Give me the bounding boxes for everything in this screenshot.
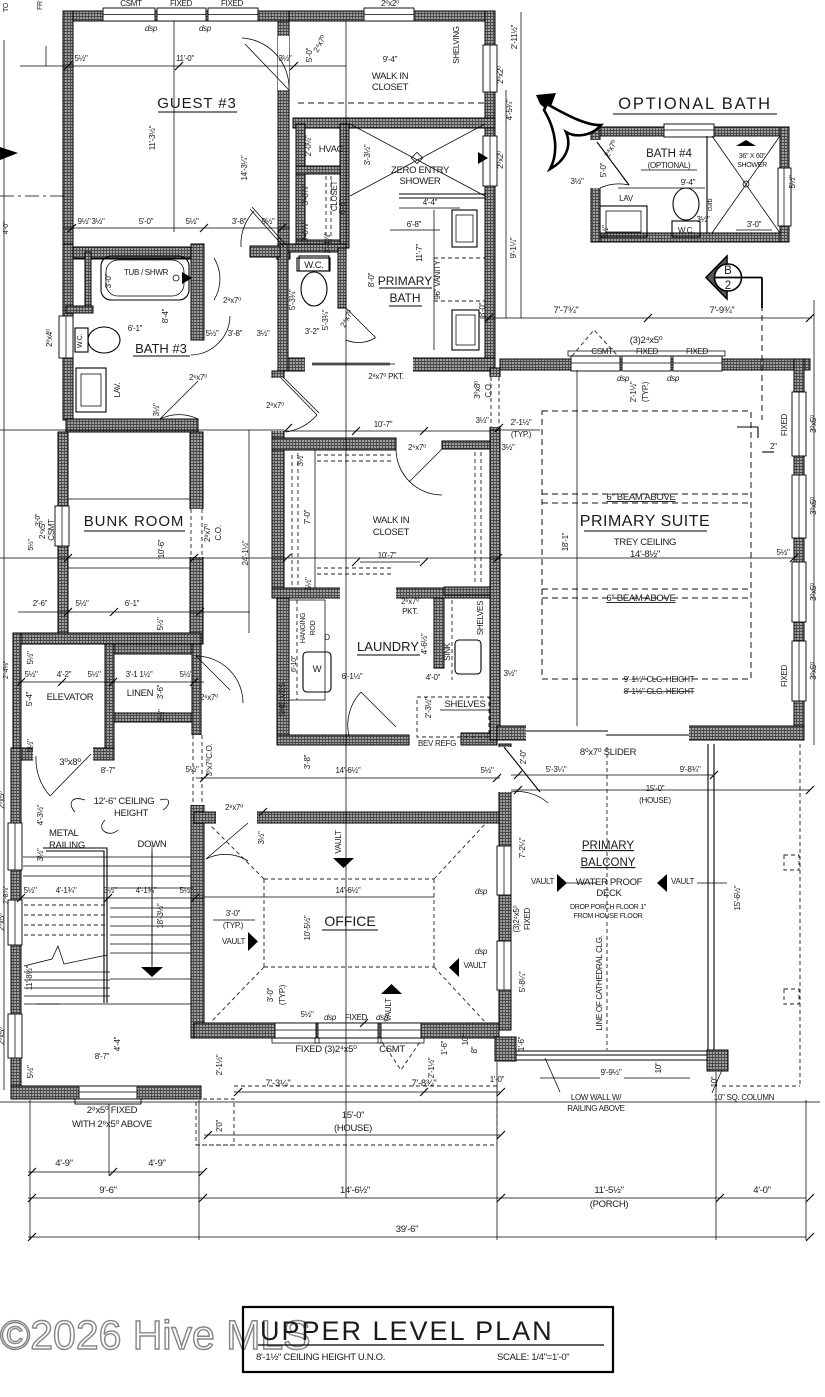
svg-text:5½": 5½"	[24, 670, 38, 679]
marker: B2 circle	[706, 256, 727, 299]
dim line y1172	[28, 1171, 204, 1173]
svg-text:CLOSET: CLOSET	[373, 527, 410, 538]
WALLS	[8, 8, 810, 1104]
stair railing	[43, 848, 107, 1003]
svg-text:5½": 5½"	[304, 577, 313, 591]
wall: primary suite right exterior	[794, 359, 804, 732]
svg-text:9½": 9½"	[261, 217, 275, 226]
wall: elevator bottom	[13, 748, 114, 760]
svg-text:2'-6": 2'-6"	[33, 599, 48, 608]
svg-text:8": 8"	[470, 1046, 479, 1053]
svg-text:4'-9": 4'-9"	[148, 1158, 165, 1169]
svg-text:SHELVING: SHELVING	[452, 26, 461, 64]
wall: stub right of WIC2 door	[442, 441, 498, 449]
trey ceiling dashed rect primary suite	[542, 411, 751, 679]
svg-text:5'-3¾": 5'-3¾"	[288, 289, 297, 310]
svg-text:3'-8⅞": 3'-8⅞"	[301, 221, 310, 242]
svg-text:(OPTIONAL): (OPTIONAL)	[648, 161, 691, 170]
svg-text:3½": 3½"	[296, 453, 305, 467]
svg-text:ROD: ROD	[310, 620, 317, 635]
svg-text:3'-3½": 3'-3½"	[363, 144, 372, 165]
svg-text:5½": 5½"	[74, 54, 88, 63]
svg-text:2⁰x5⁰: 2⁰x5⁰	[0, 791, 6, 809]
title block outer box	[243, 1307, 613, 1372]
svg-text:3½": 3½"	[501, 443, 515, 452]
extension vline x346 long	[345, 21, 347, 1198]
WIC top shelf dashed	[298, 102, 486, 104]
svg-text:HEIGHT: HEIGHT	[114, 808, 149, 819]
fixture: shower primary X	[350, 124, 485, 196]
property dash-dot top left	[0, 195, 66, 197]
svg-text:FIXED: FIXED	[636, 347, 659, 356]
door: laundry 2-8x7	[361, 692, 396, 727]
svg-text:PRIMARY SUITE: PRIMARY SUITE	[580, 513, 710, 530]
svg-text:BATH #4: BATH #4	[646, 148, 692, 160]
svg-text:2'-4⅛": 2'-4⅛"	[3, 660, 10, 679]
stair treads upper full-width	[23, 856, 191, 858]
dim line optional bath row y318	[480, 317, 812, 319]
wall piece left of office door	[194, 812, 216, 823]
svg-text:3½": 3½"	[91, 217, 105, 226]
stair treads right run	[110, 887, 191, 889]
door: elevator 3x8	[50, 754, 91, 796]
svg-text:2⁸x7⁰ PKT.: 2⁸x7⁰ PKT.	[368, 372, 404, 381]
svg-text:2'-3½": 2'-3½"	[424, 697, 433, 718]
svg-text:39'-6": 39'-6"	[396, 1224, 418, 1235]
svg-text:8'-7": 8'-7"	[101, 766, 116, 775]
WATERMARK	[0, 1312, 311, 1358]
dim line y898 stairs row	[21, 897, 204, 899]
svg-text:8'-7": 8'-7"	[95, 1052, 110, 1061]
stair treads lower	[24, 971, 110, 973]
wall: shelf nook stub	[444, 587, 497, 595]
svg-text:10'-5½": 10'-5½"	[303, 915, 312, 940]
SECTION MARKER B2	[706, 256, 762, 308]
fixture: bath4 shower X	[712, 136, 780, 233]
wall: office bottom	[194, 1023, 499, 1038]
opening: suite C.O. 3x8 dashed	[489, 377, 501, 427]
svg-text:2'-1½": 2'-1½"	[511, 418, 532, 427]
svg-text:PRIMARY: PRIMARY	[378, 274, 432, 288]
svg-text:3'-1 1½": 3'-1 1½"	[126, 670, 153, 679]
svg-text:2⁰x2⁰: 2⁰x2⁰	[496, 151, 505, 169]
svg-text:5½": 5½"	[75, 599, 89, 608]
window office bottom CSMT	[381, 1023, 421, 1038]
svg-text:2⁴x7⁰: 2⁴x7⁰	[312, 34, 328, 54]
wall: bunk bottom	[13, 633, 201, 644]
door: balcony door leaf	[504, 747, 540, 792]
extension vline x174 guest	[173, 21, 175, 232]
svg-text:3½": 3½"	[601, 225, 610, 239]
svg-text:2'-0": 2'-0"	[519, 749, 528, 764]
window balcony wall 1	[497, 846, 511, 895]
wall: guest#3 left exterior	[63, 11, 73, 247]
svg-text:2⁴x7⁰: 2⁴x7⁰	[603, 139, 619, 159]
svg-text:3½": 3½"	[278, 54, 292, 63]
svg-text:5½": 5½"	[480, 766, 494, 775]
svg-text:3½": 3½"	[103, 886, 117, 895]
svg-text:5½": 5½"	[87, 670, 101, 679]
svg-text:2⁰x5⁰: 2⁰x5⁰	[0, 1027, 6, 1045]
porch dashed lower	[196, 1144, 497, 1146]
closet dashed shelves	[325, 176, 327, 246]
svg-text:LOW WALL W/: LOW WALL W/	[571, 1093, 622, 1102]
svg-text:3⁰x5⁰: 3⁰x5⁰	[809, 415, 818, 433]
svg-text:WALK IN: WALK IN	[372, 71, 409, 82]
svg-text:FIXED: FIXED	[221, 0, 244, 8]
balcony center dashed	[606, 747, 608, 1050]
svg-text:5½": 5½"	[156, 617, 165, 631]
svg-text:FROM HOUSE FLOOR: FROM HOUSE FLOOR	[574, 913, 643, 920]
extension vline left margin	[3, 40, 5, 1090]
svg-text:2⁴x7⁰: 2⁴x7⁰	[339, 309, 355, 329]
svg-text:1'-6": 1'-6"	[440, 1040, 449, 1055]
svg-text:(PORCH): (PORCH)	[590, 1199, 629, 1210]
svg-text:3½": 3½"	[257, 831, 266, 845]
stair landing line	[24, 1003, 191, 1005]
stair break line	[24, 946, 107, 966]
fixture: bath4 lav counter	[600, 206, 647, 237]
svg-text:FIXED: FIXED	[780, 413, 789, 436]
leader arrow to optional bath	[536, 93, 556, 112]
svg-text:3'-2": 3'-2"	[305, 327, 320, 336]
svg-text:10" SQ. COLUMN: 10" SQ. COLUMN	[714, 1093, 775, 1102]
window balcony wall 2	[497, 941, 511, 990]
dim line y428	[0, 429, 284, 431]
svg-text:3'-8⅞": 3'-8⅞"	[301, 184, 310, 205]
office vault dashed octagon	[210, 823, 486, 1023]
svg-text:3½": 3½"	[696, 215, 710, 224]
svg-text:2⁶x7⁰: 2⁶x7⁰	[401, 597, 419, 606]
svg-text:(TYP.): (TYP.)	[511, 430, 532, 439]
svg-text:4'-0": 4'-0"	[753, 1185, 770, 1196]
svg-text:CSMT: CSMT	[591, 347, 613, 356]
window suite right 1	[792, 392, 806, 456]
opening: bunk cased opening	[189, 509, 204, 557]
svg-text:UPPER LEVEL PLAN: UPPER LEVEL PLAN	[260, 1316, 554, 1346]
svg-text:4'-1¾": 4'-1¾"	[136, 886, 157, 895]
dim line y1090	[234, 1091, 500, 1093]
door: bunk room door arc top	[191, 316, 230, 355]
svg-text:3⁰x5⁰: 3⁰x5⁰	[809, 583, 818, 601]
svg-text:LINEN: LINEN	[127, 688, 154, 699]
svg-text:2: 2	[725, 280, 731, 292]
opening: hall door in WIC2 left wall	[271, 378, 285, 431]
svg-text:8'-0": 8'-0"	[478, 302, 487, 317]
svg-text:2⁶x7⁰: 2⁶x7⁰	[189, 373, 207, 382]
wall: WIC2 top	[272, 438, 396, 450]
svg-text:BATH: BATH	[389, 291, 420, 305]
extension vline x506	[505, 90, 507, 318]
wall: WIC2 bottom	[272, 588, 497, 598]
svg-text:8⁰x7⁰ SLIDER: 8⁰x7⁰ SLIDER	[580, 747, 637, 758]
svg-text:HANGING: HANGING	[300, 613, 307, 644]
door: guest bottom arc	[252, 207, 286, 245]
STAIRS	[23, 848, 191, 1004]
svg-text:14'-6½": 14'-6½"	[340, 1185, 370, 1196]
svg-text:FIXED: FIXED	[780, 664, 789, 687]
window suite top FIXED2	[673, 356, 722, 371]
svg-text:BATH #3: BATH #3	[135, 341, 187, 356]
svg-text:BUNK ROOM: BUNK ROOM	[84, 513, 185, 530]
column: balcony SW	[495, 1037, 516, 1061]
svg-text:14'-3¼": 14'-3¼"	[240, 155, 249, 180]
opening: door guest to WIC	[278, 36, 289, 90]
svg-text:RAILING ABOVE: RAILING ABOVE	[567, 1104, 624, 1113]
svg-text:2⁶x7⁰: 2⁶x7⁰	[200, 693, 218, 702]
extension vline x814 right	[813, 300, 815, 745]
stair down arrow line	[151, 852, 153, 967]
window CSMT guest top	[103, 8, 155, 21]
window 2x5 stairs left 2	[8, 900, 22, 945]
svg-text:FR: FR	[37, 1, 44, 10]
svg-text:9'-8¾": 9'-8¾"	[680, 765, 701, 774]
svg-text:2⁸x7⁰: 2⁸x7⁰	[203, 524, 212, 542]
svg-text:2'-1½": 2'-1½"	[629, 381, 638, 402]
opening: bath4 door	[590, 140, 601, 188]
wall: left exterior bath#3	[63, 244, 73, 420]
wall: linen top	[114, 644, 192, 654]
wall: tub room top	[71, 247, 199, 258]
dim line y1237	[28, 1236, 806, 1238]
opening: slider 8x7	[526, 725, 689, 741]
svg-text:3⁰x5⁰: 3⁰x5⁰	[809, 497, 818, 515]
svg-text:1'-0": 1'-0"	[490, 1075, 505, 1084]
dim line corridor y221	[63, 227, 290, 229]
svg-text:LAV: LAV	[619, 194, 634, 203]
fixture: toilet primary WC	[299, 256, 329, 271]
door: hall door 2-8x7	[281, 378, 317, 415]
wall: linen bottom	[114, 713, 192, 722]
long line y1102	[0, 1101, 820, 1103]
wall: WC/bath divider	[338, 248, 346, 308]
wall: tub chase inner	[85, 252, 91, 308]
svg-text:B: B	[724, 265, 732, 277]
office window sill bands	[272, 1038, 319, 1043]
dim line y778 office top row	[196, 777, 500, 779]
svg-text:CSMT: CSMT	[379, 1044, 405, 1055]
porch pilaster dashed 1	[784, 855, 799, 870]
svg-text:dsp: dsp	[324, 1013, 337, 1022]
fixture: washer laundry	[303, 652, 331, 692]
svg-text:WATER PROOF: WATER PROOF	[576, 877, 643, 888]
svg-text:9'-4": 9'-4"	[681, 178, 696, 187]
svg-text:3⁰x5⁰: 3⁰x5⁰	[809, 662, 818, 680]
svg-text:CSMT: CSMT	[120, 0, 142, 8]
wall: top-mid block right exterior	[485, 11, 495, 371]
svg-text:3'-8": 3'-8"	[303, 754, 312, 769]
svg-text:5½": 5½"	[26, 739, 35, 753]
svg-text:W.C.: W.C.	[678, 226, 694, 235]
svg-text:BALCONY: BALCONY	[581, 857, 636, 869]
svg-text:11'-8½": 11'-8½"	[25, 965, 34, 990]
svg-text:18'-1": 18'-1"	[561, 532, 570, 551]
svg-text:7'-7¾": 7'-7¾"	[553, 305, 578, 316]
svg-text:SCALE: 1/4"=1'-0": SCALE: 1/4"=1'-0"	[497, 1352, 569, 1363]
svg-text:curb: curb	[707, 198, 714, 211]
wall: elevator block left exterior	[13, 633, 21, 748]
laundry hanging rod dashed	[289, 600, 325, 700]
svg-text:4'-2": 4'-2"	[57, 670, 72, 679]
dash-dot at landing	[36, 1003, 60, 1005]
svg-text:6'-1½": 6'-1½"	[342, 672, 363, 681]
porch dashed bottom left	[196, 1099, 234, 1145]
svg-text:8'-0": 8'-0"	[367, 272, 376, 287]
svg-text:3'-6": 3'-6"	[156, 684, 165, 699]
extension vline x577 suite	[576, 370, 578, 726]
svg-text:3'-0": 3'-0"	[747, 220, 762, 229]
svg-text:6'-8": 6'-8"	[338, 199, 347, 214]
fixture: bath3 lav box	[76, 368, 106, 412]
svg-text:VAULT: VAULT	[463, 961, 487, 970]
svg-text:3'-0": 3'-0"	[104, 273, 113, 288]
bath4 curb	[706, 136, 708, 233]
svg-text:LAV.: LAV.	[113, 383, 122, 398]
svg-text:7'-8¾": 7'-8¾"	[411, 1078, 436, 1089]
svg-text:FIXED: FIXED	[523, 907, 532, 930]
svg-text:SINK: SINK	[443, 642, 452, 660]
bunk interior lines	[68, 498, 190, 500]
svg-text:2⁸x7⁰: 2⁸x7⁰	[223, 296, 241, 305]
extension vline x249 corridor	[248, 430, 250, 633]
svg-text:5½": 5½"	[788, 175, 797, 189]
svg-text:3'-8": 3'-8"	[232, 217, 247, 226]
svg-text:2⁰x2⁰: 2⁰x2⁰	[381, 0, 399, 8]
svg-text:10'-7": 10'-7"	[374, 420, 393, 429]
balcony bottom rail	[516, 1050, 707, 1052]
svg-text:OFFICE: OFFICE	[324, 913, 375, 929]
svg-text:3½": 3½"	[152, 403, 161, 417]
fixture: primary bath vanity sink top	[452, 210, 477, 247]
window fixed stairs bottom	[79, 1086, 137, 1099]
dim line y897 office	[204, 896, 434, 898]
wall: corridor top stub	[250, 246, 280, 257]
wall: linen right	[192, 644, 201, 735]
svg-text:(TYP.): (TYP.)	[223, 921, 244, 930]
door: bath3 2-6x7	[160, 381, 198, 419]
svg-text:ZERO ENTRY: ZERO ENTRY	[391, 165, 450, 176]
svg-text:3½": 3½"	[570, 177, 584, 186]
black arrow shower right	[478, 152, 488, 164]
wall: laundry bottom	[277, 735, 409, 745]
svg-text:2'-4⅞": 2'-4⅞"	[323, 232, 332, 253]
svg-text:8'-4": 8'-4"	[161, 308, 170, 323]
svg-text:8'-1½" CEILING HEIGHT U.N.O.: 8'-1½" CEILING HEIGHT U.N.O.	[256, 1352, 385, 1363]
svg-text:14'-8½": 14'-8½"	[630, 549, 660, 560]
svg-text:10": 10"	[654, 1062, 663, 1073]
svg-text:2⁸x5⁰ FIXED: 2⁸x5⁰ FIXED	[87, 1105, 138, 1116]
wall: primary bath bottom	[288, 358, 495, 371]
svg-text:3½": 3½"	[157, 709, 166, 723]
svg-text:12'-6" CEILING: 12'-6" CEILING	[94, 796, 155, 807]
dim line y790 house row	[511, 789, 810, 791]
svg-text:dsp: dsp	[199, 24, 212, 33]
svg-text:3½": 3½"	[475, 416, 489, 425]
svg-text:C.O.: C.O.	[214, 525, 223, 540]
svg-text:W.C.: W.C.	[77, 334, 84, 348]
svg-text:DROP PORCH FLOOR 1": DROP PORCH FLOOR 1"	[570, 904, 647, 911]
svg-text:TREY CEILING: TREY CEILING	[614, 537, 676, 548]
fixture: bath4 toilet	[673, 188, 699, 220]
svg-text:11'-5½": 11'-5½"	[594, 1185, 623, 1196]
svg-text:dsp: dsp	[145, 24, 158, 33]
opening: corridor C.O. dashed	[190, 735, 205, 805]
svg-text:10'-6": 10'-6"	[157, 539, 166, 558]
svg-text:5½": 5½"	[26, 1065, 35, 1079]
black arrow left edge	[0, 147, 18, 160]
svg-text:7'-2¼": 7'-2¼"	[518, 837, 527, 858]
svg-text:DOWN: DOWN	[138, 839, 167, 850]
svg-text:7'-0": 7'-0"	[303, 509, 312, 524]
opening: guest bottom door	[203, 246, 276, 260]
stair treads left dashed	[24, 904, 107, 906]
svg-text:6'-1": 6'-1"	[125, 599, 140, 608]
svg-text:DECK: DECK	[596, 888, 622, 899]
svg-text:5½": 5½"	[23, 886, 37, 895]
svg-text:(3)2⁴x5⁰: (3)2⁴x5⁰	[512, 905, 521, 932]
wall: nook bottom right	[461, 733, 497, 745]
margin texts top-left	[3, 1, 44, 12]
svg-text:14'-6½": 14'-6½"	[336, 886, 361, 895]
window FIXED guest top 1	[157, 8, 206, 21]
ROOM LABELS	[47, 26, 777, 1030]
svg-text:dsp: dsp	[475, 887, 488, 896]
wall: primary suite top exterior	[500, 359, 810, 370]
bath4 black arrow	[736, 140, 756, 146]
OFFICE / BALCONY / BOTTOM TEXTS	[55, 747, 774, 1235]
wall: balcony left / office right	[499, 744, 511, 1030]
opening: pocket door bath bottom	[305, 357, 413, 372]
svg-text:VAULT: VAULT	[222, 937, 246, 946]
dim line y775 balcony row	[511, 774, 714, 776]
door: tub room door 2-8x7	[214, 258, 220, 300]
svg-text:5'-0": 5'-0"	[139, 217, 154, 226]
WIC2 shelves dashed bottom	[317, 567, 391, 569]
svg-text:15'-0": 15'-0"	[646, 784, 665, 793]
svg-text:4'-0": 4'-0"	[3, 221, 10, 234]
svg-text:7'-3¼": 7'-3¼"	[265, 1078, 290, 1089]
svg-text:6'-8": 6'-8"	[407, 220, 422, 229]
window suite right 2	[792, 475, 806, 538]
dim line y682 elevator row	[18, 681, 204, 683]
svg-text:10'-7": 10'-7"	[378, 551, 397, 560]
window office bottom FIXED1	[275, 1023, 316, 1038]
svg-text:3⁰x8⁰: 3⁰x8⁰	[473, 381, 482, 399]
wall: WC room top	[288, 244, 346, 252]
wall: bath4 bottom	[591, 233, 789, 242]
FIXTURES	[66, 124, 780, 692]
svg-text:5½": 5½"	[185, 765, 199, 774]
svg-text:2": 2"	[770, 442, 777, 451]
svg-text:10": 10"	[461, 1034, 470, 1045]
svg-text:6" BEAM ABOVE: 6" BEAM ABOVE	[606, 593, 675, 604]
svg-text:dsp: dsp	[667, 374, 680, 383]
svg-text:OPTIONAL BATH: OPTIONAL BATH	[618, 95, 772, 113]
svg-text:4'-9": 4'-9"	[55, 1158, 72, 1169]
svg-text:dsp: dsp	[617, 374, 630, 383]
svg-text:dsp: dsp	[475, 947, 488, 956]
svg-text:RAILING: RAILING	[49, 840, 85, 851]
svg-text:3'-8": 3'-8"	[228, 329, 243, 338]
wall: stairs right / office left	[191, 805, 204, 1038]
balcony right edge rails	[707, 744, 709, 1050]
extension vline x46 top	[45, 46, 47, 66]
window suite top CSMT	[571, 356, 620, 371]
TITLE BLOCK	[243, 1307, 613, 1372]
wall: stairs left exterior	[11, 748, 21, 1098]
svg-text:HVAC: HVAC	[319, 144, 344, 155]
svg-text:9'-9½": 9'-9½"	[601, 1068, 622, 1077]
